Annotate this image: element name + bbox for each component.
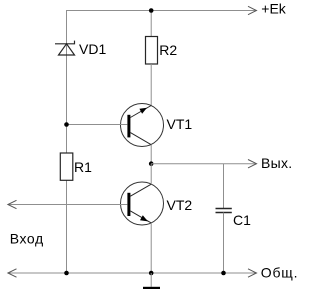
wire R2 to VT1 emitter lead: [150, 64, 152, 106]
svg-text:+Ek: +Ek: [261, 1, 287, 17]
svg-text:Вых.: Вых.: [261, 155, 293, 171]
node junction dot VT2 emitter / bottom rail: [149, 271, 154, 276]
wire output node down to C1: [223, 164, 225, 209]
svg-text:R2: R2: [159, 42, 177, 58]
node junction dot C1 / bottom rail: [221, 271, 226, 276]
svg-text:R1: R1: [74, 159, 92, 175]
svg-text:C1: C1: [233, 212, 251, 228]
svg-text:VT2: VT2: [167, 197, 193, 213]
node junction dot output: [149, 161, 154, 166]
transistor VT1: [121, 104, 164, 147]
node junction dot left vertical / VT1 base: [64, 122, 69, 127]
svg-text:VD1: VD1: [79, 41, 106, 57]
wire C1 to bottom rail: [223, 213, 225, 274]
resistor R2: [146, 37, 158, 65]
wire VT1 collector to output node: [150, 145, 152, 164]
wire top rail to +Ek: [67, 6, 257, 14]
svg-text:Общ.: Общ.: [261, 265, 299, 281]
ground: [143, 273, 160, 289]
diode VD1 (zener): [55, 41, 75, 55]
svg-text:VT1: VT1: [167, 116, 193, 132]
wire output line to Vyh: [151, 160, 256, 168]
node junction dot top rail / R2: [149, 8, 154, 13]
wire VT1 base to left vertical: [67, 124, 128, 126]
wire left vertical (top rail to bottom rail): [66, 10, 68, 273]
wire main vertical top segment: [150, 10, 152, 37]
wire VT2 collector to output node: [150, 164, 152, 185]
node junction dot left vertical / bottom rail: [64, 271, 69, 276]
wire input line to VT2 base: [8, 200, 128, 208]
resistor R1: [60, 153, 73, 180]
wire bottom rail: [8, 269, 257, 277]
wire VT2 emitter to bottom rail: [150, 223, 152, 273]
transistor VT2: [121, 182, 164, 225]
capacitor C1: [216, 209, 232, 213]
svg-text:Вход: Вход: [10, 231, 44, 247]
